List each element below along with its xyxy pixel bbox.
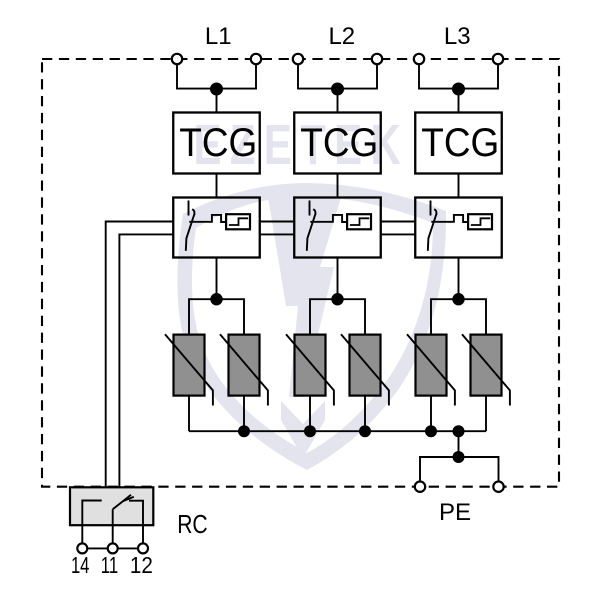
varistor RV3: [286, 334, 334, 405]
wire: disconnector to varistor junction: [431, 258, 486, 335]
RC contact common 11 leg: [112, 509, 114, 543]
junction on PE bus: [425, 425, 437, 437]
junction node L3: [452, 83, 465, 96]
RC contact 14 leg: [82, 501, 101, 544]
wire: disconnector to varistor junction: [189, 258, 244, 335]
svg-text:L2: L2: [328, 23, 355, 50]
wire: PE bus: [189, 430, 486, 432]
svg-text:TCG: TCG: [421, 121, 499, 165]
RC changeover blade: [113, 495, 131, 510]
wire: terminals to junction: [177, 59, 256, 113]
junction node below F2: [331, 293, 343, 305]
varistor RV4: [341, 334, 389, 405]
wire: disconnector to varistor junction: [310, 258, 365, 335]
wire: control bus lower (F1-F2): [260, 233, 295, 235]
junction PE tap: [453, 425, 465, 437]
terminal 14: [77, 543, 87, 553]
wire: varistor to PE bus: [430, 396, 432, 432]
wire: varistor to PE bus: [309, 396, 311, 432]
wire: control bus upper (F2-F3): [381, 221, 416, 223]
wire: terminals to junction: [419, 59, 498, 113]
wire: TCG to disconnector: [458, 174, 460, 198]
junction node below F3: [452, 293, 464, 305]
svg-text:TCG: TCG: [300, 121, 378, 165]
wire: varistor to PE bus: [485, 396, 487, 432]
wire: TCG to disconnector: [337, 174, 339, 198]
enclosure dashed border: [42, 59, 559, 487]
terminal L1 (right): [251, 54, 261, 64]
wire: terminal link 14-11-12: [82, 547, 143, 549]
TCG gas discharge module U2: [294, 113, 381, 174]
junction node L1: [210, 83, 223, 96]
wire: varistor to PE bus: [243, 396, 245, 432]
svg-text:L3: L3: [444, 23, 471, 50]
varistor RV1: [165, 334, 213, 405]
varistor RV2: [220, 334, 268, 405]
terminal 12: [138, 543, 148, 553]
RC contact 12 leg: [129, 501, 143, 544]
wire: control bus upper (F1-F2): [260, 221, 295, 223]
svg-text:TCG: TCG: [179, 121, 257, 165]
junction node below F1: [210, 293, 222, 305]
junction node L2: [331, 83, 344, 96]
svg-text:RC: RC: [177, 509, 208, 539]
wire: terminals to junction: [298, 59, 377, 113]
wire: varistor to PE bus: [188, 396, 190, 432]
wire: PE tap to PE terminals: [420, 431, 499, 487]
thermal disconnector with trigger F1: [173, 198, 260, 258]
wire: varistor to PE bus: [364, 396, 366, 432]
EZETEK watermark logo: [177, 113, 446, 470]
wire: control bus lower (F2-F3): [381, 233, 416, 235]
terminal L3 (left): [414, 54, 424, 64]
svg-text:11: 11: [101, 552, 119, 578]
thermal disconnector with trigger F3: [415, 198, 502, 258]
junction on PE bus: [304, 425, 316, 437]
varistor RV5: [407, 334, 455, 405]
svg-text:14: 14: [71, 552, 90, 578]
svg-text:PE: PE: [439, 499, 471, 526]
remote signalling contact RC box: [70, 487, 153, 525]
thermal disconnector with trigger F2: [294, 198, 381, 258]
svg-text:L1: L1: [205, 23, 232, 50]
varistor RV6: [462, 334, 510, 405]
junction on PE drop: [453, 451, 465, 463]
TCG gas discharge module U3: [415, 113, 502, 174]
junction on PE bus: [238, 425, 250, 437]
TCG gas discharge module U1: [173, 113, 260, 174]
terminal PE (right): [493, 482, 503, 492]
terminal 11: [108, 543, 118, 553]
terminal PE (left): [415, 482, 425, 492]
svg-text:12: 12: [130, 552, 153, 578]
junction on PE bus: [359, 425, 371, 437]
terminal L2 (right): [372, 54, 382, 64]
terminal L3 (right): [493, 54, 503, 64]
terminal L2 (left): [293, 54, 303, 64]
terminal L1 (left): [172, 54, 182, 64]
wire: upper control line to RC: [106, 222, 174, 489]
wire: lower control line to RC: [119, 234, 173, 488]
wire: TCG to disconnector: [216, 174, 218, 198]
RC blade tick: [122, 497, 133, 502]
